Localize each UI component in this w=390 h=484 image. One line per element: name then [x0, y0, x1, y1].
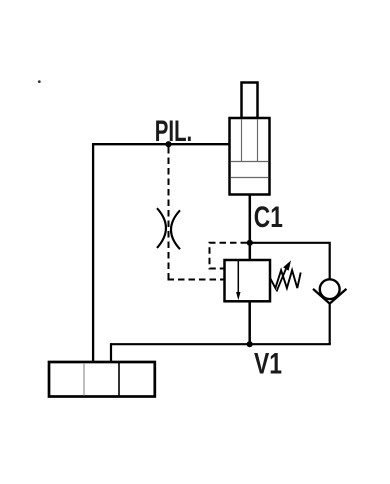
node PIL junction	[165, 141, 171, 147]
svg-text:V1: V1	[254, 347, 282, 381]
valve body U1	[225, 260, 271, 301]
wire bottom horizontal	[111, 343, 331, 345]
label V1	[254, 347, 282, 381]
check valve circle	[320, 279, 340, 299]
node V1 junction	[247, 341, 253, 347]
wire left vertical	[92, 143, 94, 362]
wire check valve bottom	[329, 303, 331, 345]
pilot line dashed vertical from PIL	[168, 147, 170, 280]
pilot line dashed horizontal to valve	[168, 279, 224, 281]
cylinder body	[230, 118, 270, 195]
wire PIL horizontal	[92, 143, 230, 145]
wire C1 to check valve	[250, 243, 330, 280]
valve flow arrow	[237, 261, 239, 293]
orifice restriction arcs	[157, 208, 180, 249]
cylinder rod interior lines	[242, 119, 258, 162]
check valve seat	[313, 289, 346, 304]
manifold block	[49, 362, 155, 397]
valve spring	[270, 270, 301, 288]
label C1	[254, 200, 283, 234]
svg-text:PIL.: PIL.	[155, 115, 192, 148]
wire valve bottom	[248, 301, 251, 344]
cylinder piston lines	[231, 162, 268, 178]
label PIL.	[155, 115, 192, 148]
svg-text:C1: C1	[254, 200, 283, 234]
valve adjustment arrow	[277, 268, 287, 292]
stray mark	[38, 80, 41, 83]
cylinder rod	[242, 83, 258, 119]
manifold divider 1	[83, 363, 85, 396]
node C1 junction	[247, 240, 253, 246]
wire C1 vertical	[249, 195, 252, 261]
manifold divider 2	[118, 363, 120, 396]
wire bottom left corner	[110, 343, 112, 362]
pilot dashed box from C1 node	[210, 243, 248, 269]
